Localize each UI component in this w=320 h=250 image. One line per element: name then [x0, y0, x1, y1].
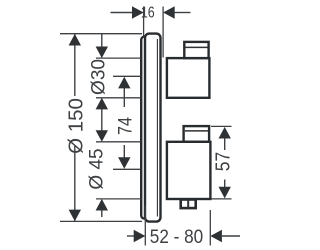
svg-text:74: 74 — [114, 117, 136, 135]
op: upper handle step knob — [184, 42, 208, 58]
node: back plate (wall escutcheon rear disc) — [141, 37, 157, 219]
svg-text:Ø30: Ø30 — [89, 59, 110, 95]
dimension 57: bottom arrow — [219, 187, 231, 199]
dimension D150: vertical line lower part — [74, 146, 76, 221]
op: lower handle step knob — [184, 126, 210, 142]
dimension D45: upper outside arrow — [96, 130, 108, 142]
wire: lower knob cap line — [185, 130, 208, 132]
svg-text:57: 57 — [212, 152, 235, 171]
wire: D30 bottom extension line (y=97.8) — [96, 97, 141, 99]
svg-text:16: 16 — [141, 4, 155, 22]
wire: right extension line of 16 dim (front face reference) — [162, 7, 164, 58]
dimension D30: lower outside arrow, leader continues to D45 — [101, 109, 103, 131]
wire: 57 top extension line (y=126.4) — [211, 125, 232, 127]
wire: 74 top extension line (y=76.3) — [113, 75, 141, 77]
dimension 74: vertical line lower part — [123, 145, 125, 159]
wire: 52-80 right extension line (x=210.3) — [209, 210, 211, 246]
dimension 52-80: left leader and arrow — [127, 235, 134, 237]
dimension 57: vertical line lower part — [224, 180, 226, 188]
wire: 74 bottom extension line (y=169.3) — [113, 168, 141, 170]
node: front plate face (dia 150 disc, side view) — [145, 34, 161, 222]
dimension D150: top arrow — [69, 34, 81, 46]
dimension 57: vertical line upper part — [224, 138, 226, 150]
wire: 52-80 left extension line (x=145.3) — [144, 205, 146, 246]
wire: left extension line of 16 dim — [143, 7, 145, 37]
dimension D45: lower outside arrow with tail — [101, 210, 103, 217]
svg-text:Ø 45: Ø 45 — [86, 148, 107, 189]
wire: 57 bottom extension line (y=198.9) — [212, 198, 232, 200]
dimension 16: right leader and arrow — [175, 12, 191, 14]
wire: tab divider — [187, 200, 189, 209]
dimension D150: vertical line upper part — [74, 34, 76, 96]
dimension 16: left leader and arrow — [111, 12, 133, 14]
dimension D150: bottom arrow — [69, 210, 81, 222]
wire: top extension line of plate (y=33.7) — [60, 33, 142, 35]
wire: D30 top extension line (y=58.1) — [96, 57, 141, 59]
dimension D30: upper outside arrow with leader from plate top line — [101, 34, 103, 47]
dimension 74: top arrow — [118, 77, 130, 89]
wire: upper knob cap line — [185, 46, 207, 48]
op: upper handle body — [167, 58, 210, 98]
wire: D45 bottom extension line (y=198.9) — [96, 198, 142, 200]
svg-text:52 - 80: 52 - 80 — [150, 225, 203, 247]
op: lower handle body — [167, 142, 211, 199]
wire: inner rim line of front plate — [156, 39, 158, 217]
dimension 57: top arrow — [219, 127, 231, 139]
wire: bottom extension line of plate (y=221.4) — [60, 220, 142, 222]
dimension 52-80: right leader and arrow — [222, 235, 240, 237]
op: lower handle bottom tab — [181, 200, 196, 209]
dimension 74: bottom arrow — [118, 157, 130, 169]
dimension 74: vertical line upper part — [123, 88, 125, 108]
svg-text:Ø 150: Ø 150 — [64, 98, 87, 154]
wire: D45 top extension line (y=141.8) — [96, 141, 141, 143]
